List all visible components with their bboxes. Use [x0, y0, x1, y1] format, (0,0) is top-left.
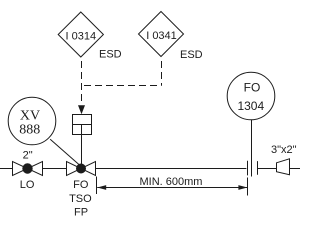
svg-text:888: 888 [19, 123, 40, 138]
instrument bubble FO 1304 [227, 72, 275, 120]
svg-text:LO: LO [20, 179, 35, 191]
main valve FO TSO FP body [67, 162, 96, 176]
svg-text:1304: 1304 [237, 99, 264, 113]
svg-text:FP: FP [74, 206, 88, 218]
svg-text:2": 2" [23, 150, 33, 162]
svg-text:FO: FO [73, 179, 89, 191]
svg-text:MIN. 600mm: MIN. 600mm [140, 176, 203, 188]
wire dashed horizontal signal join [84, 85, 162, 87]
svg-text:I 0314: I 0314 [66, 30, 97, 42]
svg-text:I 0341: I 0341 [146, 30, 177, 42]
dimension arrow left [97, 185, 106, 190]
wire dashed signal from I0341 down [161, 61, 163, 86]
actuator stem [81, 125, 83, 165]
wire dashed signal from I0314 down to actuator [81, 61, 83, 103]
reducer 3x2 [277, 159, 290, 175]
valve 2in LO body [13, 162, 43, 176]
dimension extension line right [247, 178, 249, 196]
svg-text:3"x2": 3"x2" [271, 144, 297, 156]
svg-text:FO: FO [244, 81, 261, 95]
instrument diamond I0341 [139, 12, 184, 57]
svg-text:TSO: TSO [69, 193, 92, 205]
dimension extension line left [96, 177, 98, 195]
orifice flange left bar [247, 161, 249, 176]
actuator box mid line [73, 124, 92, 126]
actuator box [73, 115, 92, 135]
main valve ball [76, 164, 86, 174]
instrument line FO1304 down through orifice [251, 120, 253, 177]
arrowhead into actuator [78, 105, 85, 114]
dimension line MIN 600mm [97, 187, 247, 189]
instrument diamond I0314 [58, 12, 103, 57]
svg-text:ESD: ESD [180, 49, 203, 61]
orifice flange right bar [257, 161, 259, 175]
leader line XV888 to valve [50, 139, 79, 165]
dimension arrow right [238, 185, 247, 190]
pipe [0, 168, 300, 170]
instrument bubble XV 888 [8, 97, 56, 145]
svg-text:ESD: ESD [99, 49, 122, 61]
svg-text:XV: XV [20, 109, 40, 124]
valve 2in LO ball [22, 163, 32, 173]
